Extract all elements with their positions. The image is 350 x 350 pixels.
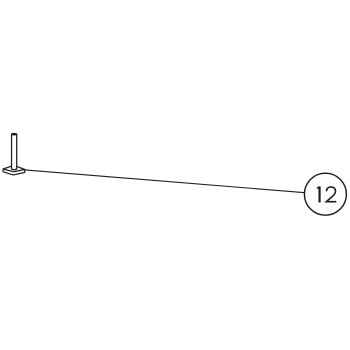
callout number digit 2	[326, 187, 336, 202]
pin rod body	[12, 134, 17, 170]
base plate top face	[3, 165, 25, 171]
callout balloon circle 12	[304, 173, 346, 215]
callout number digit 1	[317, 186, 321, 202]
pin rod top face ellipse	[12, 133, 17, 135]
leader line	[25, 170, 305, 193]
base plate bottom/side edges	[3, 169, 25, 175]
